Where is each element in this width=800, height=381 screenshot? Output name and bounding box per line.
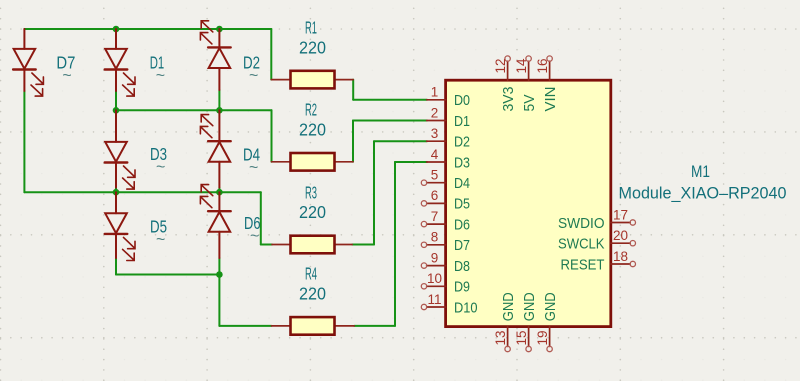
svg-text:5V: 5V (521, 95, 538, 112)
wire D6 bottom segment (218, 258, 220, 275)
svg-text:220: 220 (299, 37, 326, 57)
svg-text:M1: M1 (691, 163, 710, 181)
junction row2/D1-D3 (113, 107, 120, 114)
wire R1 output down (352, 80, 354, 100)
svg-text:16: 16 (535, 58, 550, 73)
svg-text:220: 220 (299, 202, 326, 222)
wire D5 bottom segment (115, 258, 117, 275)
junction row4/D6 (216, 271, 223, 278)
wire D2 bottom segment (218, 90, 220, 110)
resistor R1 left pin (271, 79, 290, 81)
wire D4 bottom segment (218, 188, 220, 193)
module pin 7 (D6) left (421, 209, 470, 234)
LED D6 (200, 185, 230, 258)
wire row2 to R2 vertical (271, 110, 273, 162)
svg-text:14: 14 (514, 58, 529, 74)
wire R1 to pin1 (353, 99, 427, 101)
svg-text:D5: D5 (454, 196, 470, 213)
svg-text:5: 5 (431, 168, 439, 183)
svg-text:15: 15 (514, 330, 529, 345)
wire D1 bottom segment (115, 91, 117, 110)
LED D3 (105, 110, 135, 189)
module pin 4 (D3) left (427, 147, 470, 172)
resistor R2 right pin (335, 161, 354, 163)
wire row3 horizontal (24, 191, 260, 193)
module U/M1 body (446, 80, 611, 326)
resistor R3 right pin (335, 244, 353, 246)
module pin 13 (GND) bottom (493, 292, 517, 352)
svg-text:GND: GND (500, 292, 517, 321)
module pin 11 (D10) left (421, 292, 477, 317)
wire R2 output up (352, 121, 354, 162)
svg-text:Module_XIAO–RP2040: Module_XIAO–RP2040 (619, 184, 787, 202)
resistor R1 right pin (335, 79, 354, 81)
svg-text:D9: D9 (454, 279, 470, 296)
svg-text:4: 4 (431, 147, 439, 162)
wire D3 bottom segment (115, 188, 117, 193)
wire row1 horizontal (D7/D1/D2 cathode net) (24, 28, 271, 30)
module pin 5 (D4) left (421, 168, 470, 193)
junction row1/D2 (216, 26, 223, 33)
wire row2 horizontal (D1-anode / D2-anode net) (116, 109, 272, 111)
resistor R4 right pin (335, 325, 355, 327)
LED D7 (13, 29, 43, 96)
resistor R4 left pin (272, 325, 291, 327)
module pin 15 (GND) bottom (514, 292, 538, 352)
svg-text:3: 3 (431, 126, 439, 141)
svg-text:17: 17 (613, 207, 628, 222)
svg-text:~: ~ (249, 159, 258, 176)
wire D7 bottom vertical (23, 91, 25, 192)
svg-text:7: 7 (431, 209, 439, 224)
module pin 1 (D0) left (427, 85, 470, 110)
module pin 3 (D2) left (427, 126, 470, 151)
wire R4 to pin4 (395, 161, 427, 163)
svg-text:R3: R3 (305, 182, 317, 202)
svg-text:R2: R2 (305, 100, 317, 120)
LED D5 (105, 192, 135, 260)
wire row4 to R4 vertical (218, 275, 220, 326)
resistor R3 left pin (272, 244, 291, 246)
svg-text:20: 20 (613, 228, 628, 243)
svg-text:D0: D0 (454, 92, 470, 109)
svg-text:GND: GND (521, 292, 538, 321)
resistor R2 left pin (272, 161, 291, 163)
svg-text:~: ~ (249, 67, 258, 84)
svg-text:1: 1 (431, 85, 439, 100)
svg-text:220: 220 (299, 284, 326, 304)
module pin 8 (D7) left (421, 230, 470, 255)
svg-text:D7: D7 (454, 237, 470, 254)
LED D1 (105, 29, 135, 96)
junction row1/D1 (113, 26, 120, 33)
wire row3 to R3 vertical (260, 192, 262, 244)
module pin 10 (D9) left (421, 271, 470, 296)
svg-text:~: ~ (250, 228, 259, 245)
svg-text:9: 9 (431, 250, 439, 265)
LED D4 (200, 110, 230, 187)
svg-text:~: ~ (156, 67, 165, 84)
module pin 16 (VIN) top (535, 56, 559, 112)
svg-text:D8: D8 (454, 258, 470, 275)
svg-text:11: 11 (427, 292, 441, 307)
module pin 20 (SWCLK) right (558, 228, 636, 253)
svg-text:GND: GND (542, 292, 559, 321)
svg-text:D6: D6 (454, 216, 470, 233)
junction row3/D4-D6 (216, 189, 223, 196)
wire row1 to R1 vertical (270, 29, 272, 80)
svg-text:SWDIO: SWDIO (558, 215, 605, 232)
svg-text:RESET: RESET (561, 256, 605, 273)
module pin 2 (D1) left (427, 105, 470, 130)
wire R3 left stub horizontal (261, 244, 272, 246)
svg-text:R4: R4 (305, 264, 317, 284)
svg-text:SWCLK: SWCLK (558, 236, 605, 253)
module pin 18 (RESET) right (561, 249, 636, 274)
svg-text:D10: D10 (454, 299, 478, 316)
svg-text:19: 19 (535, 330, 550, 345)
module pin 9 (D8) left (421, 250, 470, 275)
svg-text:D4: D4 (454, 175, 470, 192)
svg-text:18: 18 (613, 249, 628, 264)
svg-text:13: 13 (493, 330, 508, 345)
svg-text:~: ~ (62, 68, 71, 85)
wire R2 to pin2 (353, 120, 427, 122)
module pin 12 (3V3) top (493, 56, 517, 112)
svg-text:D2: D2 (454, 134, 470, 151)
svg-text:D1: D1 (454, 113, 470, 130)
LED D2 (200, 21, 230, 90)
module pin 19 (GND) bottom (535, 292, 559, 352)
resistor R1 body (291, 71, 335, 89)
module pin 14 (5V) top (514, 56, 538, 112)
wire R3 right stub (352, 244, 374, 246)
svg-text:3V3: 3V3 (500, 87, 517, 112)
svg-text:10: 10 (427, 271, 442, 286)
svg-text:D3: D3 (454, 154, 470, 171)
module pin 6 (D5) left (421, 188, 470, 213)
resistor R4 body (291, 317, 335, 335)
wire R4 output up (394, 162, 396, 326)
svg-text:R1: R1 (305, 17, 317, 37)
wire R3 output up (373, 141, 375, 244)
svg-text:220: 220 (299, 120, 326, 140)
svg-text:~: ~ (156, 231, 165, 248)
wire R3 to pin3 (374, 140, 427, 142)
wire row4 horizontal (116, 274, 219, 276)
svg-text:8: 8 (431, 230, 439, 245)
svg-text:6: 6 (431, 188, 439, 203)
resistor R3 body (291, 236, 335, 254)
svg-text:2: 2 (431, 105, 439, 120)
svg-text:12: 12 (493, 58, 508, 73)
svg-text:VIN: VIN (542, 87, 559, 112)
module pin 17 (SWDIO) right (558, 207, 636, 232)
svg-text:~: ~ (156, 159, 165, 176)
junction row2/D2-D4 (216, 107, 223, 114)
junction row3/D3-D5 (113, 189, 120, 196)
resistor R2 body (291, 153, 335, 171)
wire R4 right stub (354, 325, 395, 327)
wire R4 left horizontal (219, 325, 271, 327)
